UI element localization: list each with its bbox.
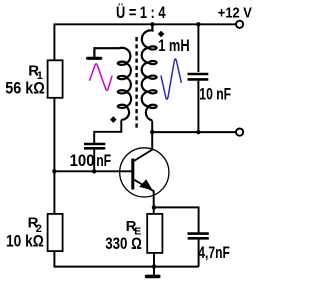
transformer secondary winding 1 mH (right coil) [142,24,157,121]
wire: left branch vertical from rail to R1 [53,24,55,62]
svg-text:Ü = 1 : 4: Ü = 1 : 4 [116,3,166,22]
winding sense dot (primary, bottom) [110,116,117,123]
wire: 10nF branch lower [197,81,199,133]
wire: RE bottom to ground rail [153,253,155,267]
resistor R1 body [48,60,63,98]
resistor R2 body [48,214,63,251]
wire: +12V top supply rail [54,23,236,25]
transistor Q1 emitter arrow [139,179,152,190]
resistor RE body [147,214,162,253]
wire: 4.7nF branch upper [198,207,200,233]
svg-text:nF: nF [96,151,111,170]
svg-text:56 kΩ: 56 kΩ [5,79,45,98]
transformer primary winding (left coil) [94,48,131,120]
transistor Q1 circle [120,148,169,197]
wire: base wire from divider node to transistor base [54,170,131,172]
wire: 4.7nF branch lower [198,240,200,267]
capacitor 4.7nF plates [188,234,209,239]
transformer core (dashed line) [135,37,137,128]
winding sense dot (secondary, top) [158,31,165,38]
junction: 100nF / base [92,169,96,173]
wire: 10nF branch upper [197,24,199,72]
svg-text:10 kΩ: 10 kΩ [6,232,44,251]
transistor Q1 collector lead [134,150,153,161]
transistor Q1 emitter lead [134,180,154,191]
svg-text:+12 V: +12 V [218,5,252,22]
junction: output / 10nF [196,130,200,134]
junction: rail / right coil [150,22,154,26]
junction: emitter node [152,205,156,209]
input terminal bar (primary top electrode) [88,57,101,60]
capacitor 10nF plates [188,74,209,79]
terminal: output [236,129,243,136]
capacitor 100nF plates [84,144,105,148]
transistor Q1 base bar [131,159,134,190]
junction: collector output node [150,130,154,134]
wire: emitter node horizontal to 4.7nF branch [154,206,199,208]
wire: left branch vertical R1 to R2 [53,98,55,215]
svg-text:4,7nF: 4,7nF [198,243,230,262]
wire: emitter vertical to RE [153,190,155,214]
wire: 100nF capacitor to base wire [93,150,95,172]
svg-text:330 Ω: 330 Ω [105,234,142,253]
signal waveform: primary (magenta sine) [89,64,112,90]
junction: divider / base [52,169,56,173]
wire: left coil bottom to 100nF capacitor [94,120,121,143]
ground symbol [147,267,159,277]
terminal: +12V supply [236,21,243,28]
svg-text:100: 100 [70,151,95,170]
wire: left branch vertical R2 to ground rail [53,251,55,267]
junction: rail / 10nF [196,22,200,26]
svg-text:1 mH: 1 mH [158,36,189,55]
wire: collector vertical through output node to right coil bottom [151,121,153,149]
wire: output node horizontal to output terminal [152,131,236,133]
wire: bottom ground rail [54,266,199,268]
svg-text:10 nF: 10 nF [199,84,231,103]
junction: RE / ground rail [152,264,156,268]
signal waveform: secondary (blue sine, inverted, larger) [161,59,182,99]
